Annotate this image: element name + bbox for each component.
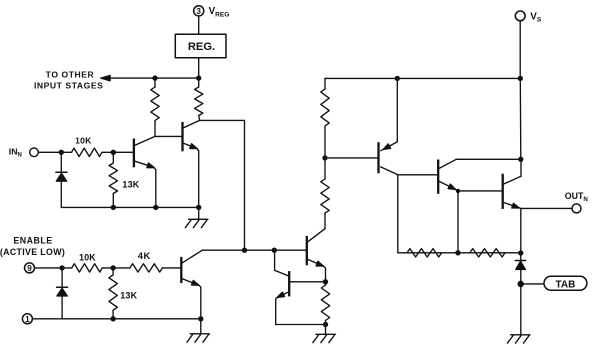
resistor R4 13K — [109, 152, 140, 207]
wire pin3 to REG box — [198, 16, 200, 34]
junction mid column — [243, 248, 247, 252]
resistor R3 — [195, 78, 203, 120]
wire INN to node — [38, 151, 61, 153]
transistor Q6 PNP — [379, 78, 398, 173]
wire Q5 base — [289, 281, 325, 283]
svg-text:VS: VS — [530, 11, 542, 23]
resistor R11 — [407, 249, 442, 257]
junction rail/VS — [518, 76, 522, 80]
wire Q4 emitter down — [323, 266, 326, 282]
transistor Q7 driver — [438, 159, 456, 194]
svg-text:VREG: VREG — [209, 6, 230, 19]
wire input-stage bottom — [61, 206, 198, 208]
wire to ground 1 — [198, 207, 200, 219]
arrow to other input stages — [101, 75, 110, 80]
wire Q3 collector — [202, 249, 245, 251]
diode D3 — [515, 253, 525, 284]
resistor R5 10K — [62, 252, 113, 272]
wire input-stage top rail — [101, 77, 199, 79]
junction INN/D1 — [59, 150, 63, 154]
svg-text:OUTN: OUTN — [565, 191, 589, 203]
wire pin9 to node — [34, 267, 62, 269]
pin 1 terminal — [22, 314, 32, 324]
svg-text:REG.: REG. — [188, 41, 215, 53]
wire Q6 collector — [381, 167, 398, 175]
wire Q6 collector down — [397, 175, 399, 253]
pin 3 terminal — [194, 6, 204, 16]
svg-text:10K: 10K — [79, 252, 96, 262]
arrow emitter Q6 PNP — [383, 144, 390, 150]
terminal VS — [515, 11, 525, 21]
junction R5/R7 — [111, 266, 115, 270]
resistor R9 — [321, 78, 329, 157]
terminal INN — [30, 148, 39, 157]
svg-text:9: 9 — [27, 264, 32, 273]
arrow emitter Q8 — [512, 203, 519, 208]
ground output stage — [507, 335, 530, 343]
resistor R6 4K — [113, 250, 180, 272]
wire to ground 3 — [325, 325, 327, 335]
transistor Q8 output — [503, 174, 521, 209]
arrow emitter Q1 — [147, 163, 154, 168]
transistor Q5 clamp — [277, 271, 289, 297]
junction bottom/Q7e — [456, 251, 460, 255]
junction rail/Q6 emitter — [395, 76, 399, 80]
junction rail/Q7 collector — [519, 157, 523, 161]
wire to OUT terminal — [521, 207, 572, 209]
wire Q7 collector rail — [456, 158, 521, 160]
junction pin9/D2 — [60, 266, 64, 270]
wire Q1 emitter down — [153, 167, 156, 207]
wire Q3 emitter down — [198, 285, 201, 319]
wire node to Q1 base — [113, 151, 133, 153]
wire Q7 emitter to Q8 base — [458, 190, 502, 192]
junction bottom/Q3e — [199, 317, 203, 321]
resistor R2 — [151, 78, 159, 120]
transistor Q3 — [181, 250, 202, 285]
wire Q6 collector to Q7 base — [398, 174, 437, 176]
junction bottom/rail — [519, 251, 523, 255]
transistor Q4 VAS — [307, 229, 325, 266]
wire VS stem — [519, 21, 521, 79]
transistor Q1 — [134, 136, 155, 167]
wire Q2 emitter down — [197, 148, 199, 207]
wire to ground 2 — [200, 319, 202, 334]
wire output bottom — [398, 252, 521, 254]
wire Q1 collector node — [155, 121, 182, 137]
wire Q2 collector to VAS column — [200, 119, 245, 121]
svg-text:INN: INN — [9, 146, 22, 158]
terminal TAB — [544, 276, 587, 290]
resistor R12 — [470, 249, 505, 257]
arrow emitter Q7 — [448, 184, 455, 189]
resistor R7 13K — [109, 268, 138, 319]
wire to ground 4 — [520, 284, 522, 335]
arrow emitter Q2 — [190, 144, 197, 149]
junction node A — [272, 248, 276, 252]
terminal OUTN — [572, 204, 581, 213]
svg-text:TAB: TAB — [555, 279, 575, 290]
resistor R8 — [321, 158, 329, 213]
junction bottom/R4 — [111, 205, 115, 209]
wire clamp collector — [275, 250, 289, 276]
wire mid column vertical — [244, 120, 246, 250]
junction R8/R9/Q6 base — [323, 156, 327, 160]
arrow emitter Q5 — [277, 292, 284, 297]
junction bottom/R7 — [111, 317, 115, 321]
svg-text:4K: 4K — [138, 250, 151, 261]
resistor R10 — [321, 280, 329, 327]
junction TAB node — [518, 281, 523, 286]
wire Q7 emitter node — [455, 189, 460, 253]
svg-text:10K: 10K — [75, 136, 92, 146]
regulator block REG — [175, 34, 226, 58]
wire output node — [519, 208, 521, 253]
diode D2 — [57, 268, 68, 319]
svg-text:13K: 13K — [120, 290, 137, 300]
svg-text:3: 3 — [196, 7, 201, 16]
wire Q8 collector up — [520, 159, 522, 176]
label INN — [9, 146, 22, 158]
svg-text:1: 1 — [25, 315, 30, 324]
label ENABLE — [0, 235, 65, 257]
label TO OTHER INPUT STAGES — [34, 70, 103, 91]
junction top rail / R2 — [153, 76, 157, 80]
junction bottom/Q1e — [154, 205, 158, 209]
wire VS rail mid — [519, 78, 522, 159]
arrow emitter Q4 — [316, 261, 323, 266]
ground input stage — [185, 219, 208, 227]
svg-text:INPUT STAGES: INPUT STAGES — [34, 81, 103, 91]
junction R1/R4 — [111, 150, 115, 154]
resistor R1 10K — [61, 136, 113, 157]
svg-text:TO OTHER: TO OTHER — [46, 70, 95, 80]
wire top rail right — [325, 77, 520, 79]
svg-text:ENABLE: ENABLE — [13, 235, 52, 245]
label OUTN — [565, 191, 589, 203]
wire to TAB — [521, 283, 544, 285]
svg-text:13K: 13K — [122, 179, 139, 189]
wire enable bottom — [32, 318, 201, 320]
diode D1 — [56, 152, 67, 207]
pin 9 terminal — [25, 263, 35, 273]
ground enable stage — [187, 334, 210, 342]
label VS — [530, 11, 542, 23]
wire Q5 emitter to bottom — [276, 297, 326, 324]
label VREG — [209, 6, 230, 19]
arrow emitter Q3 — [192, 280, 199, 285]
transistor Q2 — [183, 120, 200, 151]
wire REG to input-stage rail — [198, 58, 200, 78]
svg-text:(ACTIVE LOW): (ACTIVE LOW) — [0, 247, 65, 257]
wire Q6 base — [325, 157, 378, 159]
junction top rail / REG / R3 — [197, 76, 201, 80]
wire node to Q4 base — [245, 249, 306, 251]
ground middle stage — [313, 334, 336, 342]
junction bottom/Q2e — [197, 205, 201, 209]
wire Q4 collector up — [324, 213, 326, 229]
